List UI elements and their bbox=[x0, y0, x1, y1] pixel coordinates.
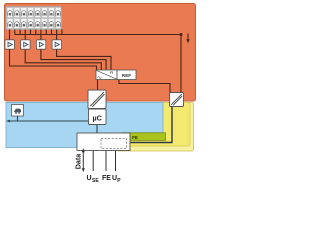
svg-text:U: U bbox=[112, 175, 117, 182]
wire FE bbox=[105, 151, 107, 172]
wire ADC to signal isolation bbox=[97, 80, 99, 91]
wire uC to interface box bbox=[96, 125, 98, 134]
wire common rail bbox=[15, 34, 181, 36]
wire Data bbox=[82, 152, 84, 169]
amplifier A1 bbox=[5, 40, 14, 49]
orange input zone bbox=[5, 4, 196, 102]
wire ch2 signal bbox=[24, 30, 26, 41]
microcontroller uC bbox=[89, 109, 107, 125]
wire return 6 bbox=[51, 30, 53, 35]
wire U_SE bbox=[92, 151, 94, 172]
wire return 4 bbox=[35, 30, 37, 35]
arrowhead at blue edge bbox=[6, 120, 10, 123]
isolation barrier U3 (supply) bbox=[170, 93, 184, 107]
wires: terminal to amplifiers bbox=[10, 30, 182, 93]
wire ch1 signal bbox=[9, 30, 11, 41]
wire ADC to supply isolation bbox=[119, 80, 170, 93]
wire amp4 out bbox=[57, 49, 111, 70]
amplifier A3 bbox=[36, 40, 45, 49]
wire config box stub bbox=[17, 116, 19, 121]
svg-text:FE: FE bbox=[132, 135, 138, 140]
ground arrow symbol bbox=[186, 34, 189, 44]
svg-text:Data: Data bbox=[74, 153, 83, 170]
REF box bbox=[117, 70, 136, 80]
svg-text:U: U bbox=[87, 175, 92, 182]
wires in logic zone bbox=[7, 116, 97, 133]
terminal clamp icons row 1 bbox=[7, 8, 61, 18]
wire return 1 bbox=[14, 30, 16, 35]
svg-text:µC: µC bbox=[93, 114, 102, 123]
wire config to uC bbox=[7, 120, 89, 122]
green FE bar bbox=[122, 133, 166, 141]
wire ch3 signal bbox=[40, 30, 42, 41]
Data arrowheads bbox=[82, 148, 85, 152]
svg-text:REF: REF bbox=[122, 73, 131, 78]
terminal block body bbox=[6, 7, 62, 30]
svg-text:FE: FE bbox=[102, 175, 111, 182]
wire return 7 bbox=[61, 30, 63, 35]
page background bbox=[0, 0, 200, 188]
wire amp2 out bbox=[25, 49, 101, 70]
inner yellow power zone bbox=[120, 103, 191, 147]
wires: amplifiers to ADC bbox=[10, 49, 171, 92]
amplifier A4 bbox=[52, 40, 61, 49]
wire rail drop to isolation bbox=[180, 35, 182, 93]
blue logic zone bbox=[6, 103, 163, 148]
ADC U1 bbox=[96, 70, 117, 80]
bottom connection lines bbox=[83, 151, 115, 172]
wire ch4 signal bbox=[56, 30, 58, 41]
interface box bbox=[77, 133, 130, 151]
wire supply isolation to interface bbox=[128, 107, 172, 143]
wire amp3 out bbox=[41, 49, 106, 70]
wire return 3 bbox=[30, 30, 32, 35]
wire return 2 bbox=[19, 30, 21, 35]
isolation barrier U2 (signal) bbox=[88, 90, 106, 109]
node rail junction bbox=[180, 33, 183, 36]
wire return 5 bbox=[45, 30, 47, 35]
wire U_P bbox=[115, 151, 117, 172]
config connector box bbox=[12, 105, 24, 117]
amplifier A2 bbox=[21, 40, 30, 49]
outer yellow power zone bbox=[117, 103, 194, 152]
wire amp1 out bbox=[10, 49, 97, 70]
svg-text:SE: SE bbox=[92, 178, 99, 184]
terminal clamp icons row 2 bbox=[7, 19, 61, 29]
